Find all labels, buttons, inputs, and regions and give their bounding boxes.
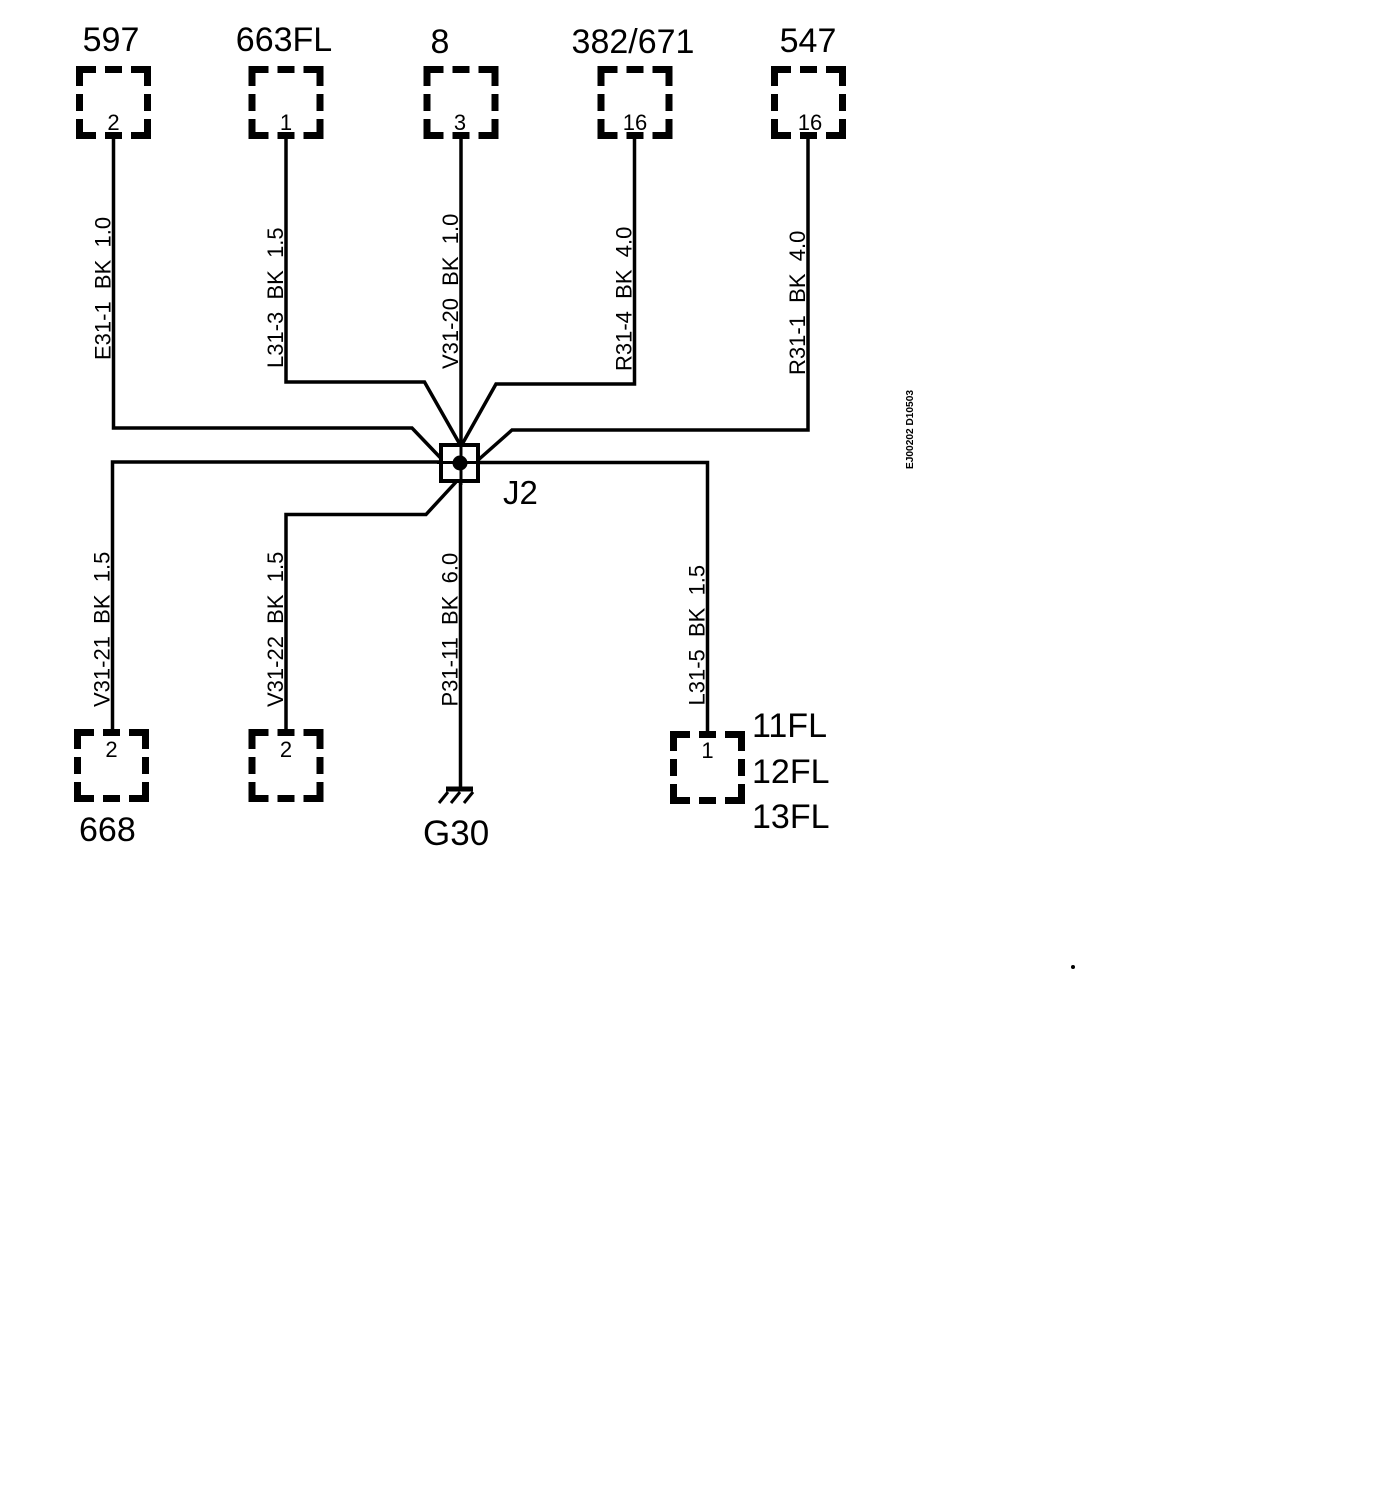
svg-text:16: 16	[623, 110, 647, 135]
svg-text:G30: G30	[423, 814, 489, 853]
junction J2 symbol (box with dot)	[437, 441, 483, 485]
svg-text:2: 2	[280, 737, 292, 762]
svg-text:2: 2	[107, 110, 119, 135]
wire P31-11 from junction J2 to ground G30	[459, 478, 463, 789]
wire V31-21 from junction J2 to connector 668 pin 2	[113, 462, 444, 729]
svg-text:2: 2	[105, 737, 117, 762]
wire V31-22 from junction J2 to connector pin 2	[286, 482, 456, 729]
svg-text:V31-20 BK 1.0: V31-20 BK 1.0	[438, 214, 463, 369]
svg-text:EJ00202 D10503: EJ00202 D10503	[904, 390, 916, 469]
wire R31-4 from connector 382/671 pin 16 to junction J2	[462, 139, 635, 445]
ground G30 symbol	[439, 789, 473, 803]
svg-text:L31-5 BK 1.5: L31-5 BK 1.5	[685, 565, 710, 706]
connector 11FL/12FL/13FL (dashed box)	[670, 731, 745, 804]
connector 597 (dashed box)	[76, 66, 151, 139]
connector (dashed box, V31-22)	[249, 729, 324, 802]
connector 547 (dashed box)	[771, 66, 846, 139]
svg-text:V31-21 BK 1.5: V31-21 BK 1.5	[90, 552, 115, 707]
svg-text:V31-22 BK 1.5: V31-22 BK 1.5	[263, 552, 288, 707]
svg-text:11FL: 11FL	[752, 707, 827, 745]
svg-text:L31-3 BK 1.5: L31-3 BK 1.5	[263, 227, 288, 368]
connector 382/671 (dashed box)	[598, 66, 673, 139]
svg-text:R31-1 BK 4.0: R31-1 BK 4.0	[785, 231, 810, 375]
svg-text:1: 1	[701, 738, 713, 763]
wire L31-5 from junction J2 to connector pin 1 (11FL/12FL/13FL)	[478, 463, 708, 732]
svg-text:547: 547	[780, 22, 837, 60]
svg-text:R31-4 BK 4.0: R31-4 BK 4.0	[612, 227, 637, 371]
svg-text:382/671: 382/671	[572, 23, 695, 61]
connector 668 (dashed box)	[74, 729, 149, 802]
connector 8 (dashed box)	[424, 66, 499, 139]
svg-text:13FL: 13FL	[752, 798, 830, 836]
svg-text:E31-1 BK 1.0: E31-1 BK 1.0	[91, 217, 116, 360]
svg-text:12FL: 12FL	[752, 753, 830, 791]
wire E31-1 from connector 597 pin 2 to junction J2	[114, 139, 444, 461]
svg-text:1: 1	[280, 110, 292, 135]
wire V31-20 from connector 8 pin 3 to junction J2 (upper part)	[459, 139, 463, 446]
svg-text:8: 8	[431, 23, 450, 61]
svg-text:668: 668	[79, 811, 136, 849]
wire L31-3 from connector 663FL pin 1 to junction J2	[286, 139, 460, 445]
svg-text:3: 3	[454, 110, 466, 135]
wire R31-1 from connector 547 pin 16 to junction J2	[477, 139, 808, 461]
svg-text:597: 597	[83, 21, 140, 59]
stray dot artifact	[1071, 965, 1075, 969]
svg-text:663FL: 663FL	[236, 21, 332, 59]
svg-text:P31-11 BK 6.0: P31-11 BK 6.0	[438, 553, 463, 707]
svg-text:J2: J2	[503, 474, 538, 511]
svg-text:16: 16	[798, 110, 822, 135]
connector 663FL (dashed box)	[249, 66, 324, 139]
